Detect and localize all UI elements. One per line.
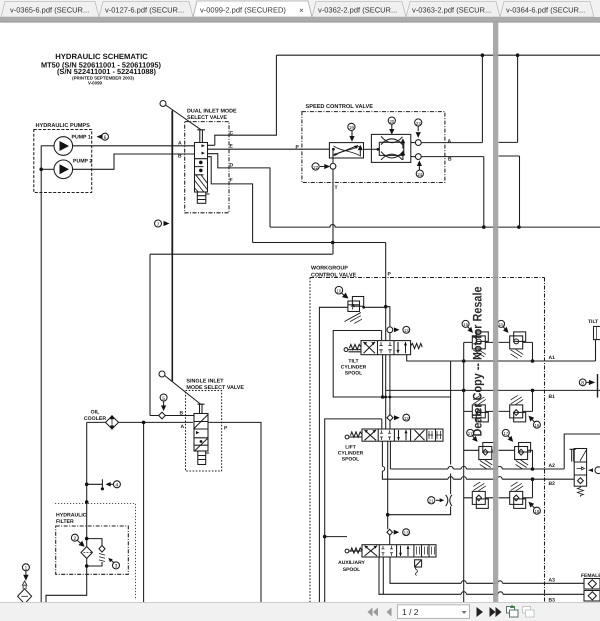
21 hose break: [428, 497, 435, 504]
dual inlet valve labels: [178, 109, 237, 184]
right section parallel arrows: [398, 342, 406, 353]
P rail below tilt to lift check: [389, 355, 391, 415]
svg-text:1: 1: [25, 566, 28, 572]
tab 4: [312, 2, 406, 18]
next page: [477, 607, 484, 617]
pilot circle and lever: [160, 101, 166, 107]
operator: [344, 348, 348, 352]
svg-text:15: 15: [463, 322, 468, 327]
D wire: [208, 154, 271, 227]
svg-text:SPOOL: SPOOL: [342, 457, 360, 463]
aux spool valve: [345, 545, 436, 576]
pump 2: [54, 160, 73, 179]
svg-text:5: 5: [162, 396, 165, 402]
tab 6: [500, 2, 594, 18]
title block: [41, 52, 162, 86]
svg-text:SINGLE INLET: SINGLE INLET: [186, 379, 224, 385]
row4 left relief valve: [464, 482, 493, 509]
svg-text:V-0099: V-0099: [88, 81, 102, 86]
svg-text:4: 4: [116, 483, 119, 489]
svg-text:COOLER: COOLER: [84, 416, 106, 422]
B2 line: [382, 441, 574, 479]
svg-text:17: 17: [503, 431, 508, 436]
speed control valve box: [302, 112, 445, 183]
svg-text:(PRINTED SEPTEMBER 2003): (PRINTED SEPTEMBER 2003): [72, 75, 134, 80]
row3 right relief valve (17): [499, 443, 533, 470]
callout 19: [348, 123, 355, 130]
tab 5: [406, 2, 500, 18]
callout 18: [533, 507, 540, 514]
diverter valve on A2: [574, 449, 586, 487]
svg-text:PUMP 2: PUMP 2: [73, 159, 92, 165]
P rail below lift: [387, 441, 389, 529]
top wire: [276, 54, 600, 56]
svg-text:A3: A3: [549, 578, 556, 584]
callout 7: [155, 220, 162, 227]
motor block: [371, 134, 410, 162]
row3 left relief valve (17): [464, 443, 495, 470]
gray strip under tabs: [0, 17, 600, 23]
check circles A/B: [411, 142, 416, 144]
callout 5 + check: [160, 394, 167, 401]
row4 right relief valve: [499, 479, 533, 508]
svg-text:10: 10: [336, 289, 341, 294]
valve stem: [197, 130, 205, 143]
callout 20: [388, 117, 395, 124]
svg-text:SPEED CONTROL VALVE: SPEED CONTROL VALVE: [306, 104, 374, 110]
dual inlet valve box: [185, 122, 229, 213]
snapshot icon 2 (disabled): [523, 607, 535, 618]
prev page: [387, 608, 392, 617]
svg-text:21: 21: [429, 499, 434, 504]
row1 left relief valve (15): [464, 332, 493, 359]
svg-text:v-0364-6.pdf (SECUR...: v-0364-6.pdf (SECUR...: [506, 6, 585, 15]
first page button: [368, 608, 392, 617]
svg-text:7: 7: [157, 222, 160, 228]
P rail down: [385, 243, 387, 307]
svg-text:CYLINDER: CYLINDER: [341, 365, 367, 371]
callout 23: [415, 119, 422, 126]
bowtie lower: [381, 152, 403, 160]
callout 24: [416, 170, 423, 177]
svg-text:8: 8: [581, 381, 584, 387]
lift rect right vertical: [450, 361, 452, 397]
lift spool valve: [345, 429, 443, 441]
A/P wire through valve: [143, 424, 145, 602]
left section X arrows: [364, 342, 376, 353]
callouts 17: [467, 429, 474, 436]
tilt spool valve: [344, 341, 422, 355]
breather callout 1: [22, 564, 29, 571]
svg-text:v-0099-2.pdf (SECURED): v-0099-2.pdf (SECURED): [200, 6, 286, 15]
svg-text:LIFT: LIFT: [345, 444, 356, 450]
callouts 15: [462, 320, 469, 327]
middle section marks: [379, 342, 391, 353]
right-of-bar stubs: [499, 55, 518, 142]
B1 line: [386, 389, 600, 391]
A1 line: [407, 348, 596, 361]
callout 13 tilt: [394, 327, 400, 332]
svg-text:SPOOL: SPOOL: [343, 567, 361, 573]
svg-text:v-0365-6.pdf (SECUR...: v-0365-6.pdf (SECUR...: [10, 6, 89, 15]
long wire y227 with hop: [270, 224, 600, 227]
svg-text:SELECT VALVE: SELECT VALVE: [187, 115, 227, 121]
single valve body: [194, 414, 208, 452]
page box: [398, 605, 470, 619]
A/B wires out: [421, 55, 482, 142]
svg-text:6: 6: [104, 135, 107, 141]
svg-text:v-0362-2.pdf (SECUR...: v-0362-2.pdf (SECUR...: [318, 6, 397, 15]
TOOLBAR: [0, 603, 600, 621]
svg-text:CONTROL VALVE: CONTROL VALVE: [311, 272, 357, 278]
svg-text:A: A: [181, 424, 185, 430]
svg-text:15: 15: [499, 322, 504, 327]
row2 left relief valve: [464, 395, 493, 422]
springs: [349, 344, 361, 349]
P jog to tilt check: [386, 307, 390, 327]
B3 line: [379, 557, 584, 594]
test port 4: [87, 479, 103, 487]
callout 6: [102, 133, 109, 140]
pilot circle + lever: [159, 371, 165, 377]
F wire: [208, 157, 253, 243]
aux rect top: [325, 536, 347, 538]
callout 3: [113, 562, 120, 569]
wire flowcontrol to motor: [364, 148, 380, 150]
svg-text:OIL: OIL: [91, 410, 100, 416]
svg-text:1 / 2: 1 / 2: [402, 607, 419, 617]
svg-text:SPOOL: SPOOL: [345, 371, 363, 377]
tab 1: [1, 2, 99, 18]
dual valve actuator: [197, 192, 206, 203]
callout 22 + T branch: [312, 163, 319, 170]
A2 line: [390, 434, 600, 469]
F/P wire y242.5: [253, 242, 386, 244]
hydraulic pumps box: [34, 130, 92, 193]
svg-text:FILTER: FILTER: [56, 519, 74, 525]
snapshot icon 1: [507, 607, 519, 618]
last page: [490, 607, 496, 617]
filter element: [81, 547, 92, 559]
svg-text:AUXILIARY: AUXILIARY: [338, 560, 365, 566]
svg-text:B2: B2: [549, 481, 556, 487]
callout 2: [71, 534, 78, 541]
tank dotted enclosure: [55, 504, 136, 601]
svg-text:A: A: [448, 138, 452, 144]
svg-text:13: 13: [404, 416, 409, 421]
svg-text:B: B: [178, 154, 182, 160]
relief valve 10: [335, 286, 343, 294]
svg-text:WORKGROUP: WORKGROUP: [311, 266, 348, 272]
svg-text:T: T: [335, 185, 338, 191]
svg-text:2: 2: [74, 536, 77, 542]
svg-text:A2: A2: [549, 463, 556, 469]
row1 right relief valve (15): [499, 332, 533, 361]
svg-text:CYLINDER: CYLINDER: [338, 451, 364, 457]
svg-text:3: 3: [115, 564, 118, 570]
svg-text:TILT: TILT: [588, 319, 598, 325]
breather symbol: [22, 581, 27, 585]
svg-text:F: F: [230, 178, 233, 184]
A3 line: [390, 557, 584, 583]
watermark bar: [493, 23, 498, 603]
svg-text:v-0363-2.pdf (SECUR...: v-0363-2.pdf (SECUR...: [412, 6, 491, 15]
svg-text:17: 17: [468, 431, 473, 436]
svg-text:TILT: TILT: [348, 358, 358, 364]
E wire to speed valve P: [208, 148, 330, 150]
T return to left then down: [149, 254, 151, 415]
svg-text:19: 19: [349, 125, 354, 130]
svg-text:v-0127-6.pdf (SECUR...: v-0127-6.pdf (SECUR...: [105, 6, 184, 15]
pump 1: [54, 137, 73, 156]
tilt rect: [333, 331, 382, 398]
callout 16: [533, 421, 540, 428]
svg-text:B: B: [448, 157, 452, 163]
callout 8: [579, 379, 586, 386]
TAB BAR: [0, 0, 600, 23]
C wire: [208, 55, 277, 145]
svg-text:18: 18: [534, 509, 539, 514]
left tank rail: [463, 342, 465, 602]
bowtie upper: [381, 136, 403, 144]
svg-text:22: 22: [313, 165, 318, 170]
lift rect left edge: [325, 419, 382, 602]
svg-text:A1: A1: [549, 355, 556, 361]
svg-text:13: 13: [404, 531, 409, 536]
row2 right relief valve: [499, 390, 533, 422]
svg-text:×: ×: [299, 6, 304, 15]
tab 2: [99, 2, 193, 18]
svg-text:16: 16: [534, 423, 539, 428]
wire pump suction left vertical: [40, 146, 42, 602]
svg-text:24: 24: [417, 172, 422, 177]
svg-text:13: 13: [404, 328, 409, 333]
svg-text:A: A: [178, 141, 182, 147]
svg-text:PUMP 1: PUMP 1: [72, 135, 91, 141]
svg-text:B1: B1: [549, 394, 556, 400]
svg-text:HYDRAULIC PUMPS: HYDRAULIC PUMPS: [36, 123, 91, 129]
wire pump2 to valve B: [73, 154, 195, 169]
wire pump1 to valve A: [73, 145, 195, 147]
cooler down line: [46, 422, 87, 602]
flow control valve: [329, 143, 363, 158]
T wire y254.2: [150, 253, 333, 255]
bypass check: [87, 539, 102, 566]
svg-text:HYDRAULIC: HYDRAULIC: [56, 513, 87, 519]
svg-text:DUAL INLET MODE: DUAL INLET MODE: [187, 109, 237, 115]
svg-text:23: 23: [416, 121, 421, 126]
svg-text:20: 20: [389, 119, 394, 124]
tab 3 active: [193, 1, 312, 17]
detent: [415, 560, 422, 567]
dual valve body: [195, 143, 208, 193]
thick lever line: [171, 111, 173, 255]
